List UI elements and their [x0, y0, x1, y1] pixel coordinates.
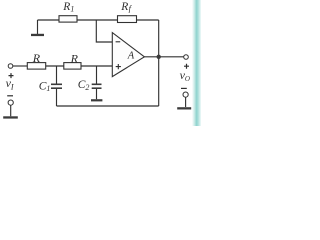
op-amp U1: [112, 33, 144, 77]
wire Rf to top-right corner: [137, 19, 159, 21]
ground below C2: [91, 99, 102, 101]
wire right vertical rail (Rf to output to bottom feedback): [158, 20, 160, 106]
wire R1 to Rf: [77, 19, 118, 21]
resistor R (input, second): [64, 51, 81, 69]
resistor Rf: [118, 1, 137, 23]
wire input terminal ground stub: [10, 105, 12, 116]
capacitor C2: [78, 79, 102, 92]
wire op-amp output to terminal: [144, 56, 183, 58]
wire C1 top stem: [56, 66, 58, 84]
pin - (inverting input mark): [116, 41, 121, 43]
resistor R (input, first): [27, 51, 45, 69]
wire C2 bottom stem to ground: [96, 89, 98, 99]
wire C1 bottom stem: [56, 89, 58, 106]
label - polarity at output: [181, 87, 187, 89]
wire top-left ground to R1: [38, 19, 60, 21]
label + polarity at input: [9, 73, 14, 78]
ground at input port: [3, 116, 18, 118]
svg-text:A: A: [127, 51, 135, 62]
pin + (non-inverting input mark): [116, 64, 121, 69]
wire output terminal ground stub: [185, 97, 187, 107]
ground top-left: [31, 20, 44, 36]
wire bottom feedback run to right rail: [57, 105, 159, 107]
resistor R1: [59, 1, 77, 22]
ground at output port: [177, 107, 191, 109]
label + polarity at output: [184, 64, 189, 69]
svg-text:R: R: [32, 51, 41, 65]
svg-text:R: R: [70, 51, 79, 65]
wire first R to second R: [46, 65, 64, 67]
node output junction: [157, 55, 161, 59]
node output terminal (top): [184, 55, 189, 60]
node input terminal (top): [8, 64, 13, 69]
node input return terminal (bottom): [8, 100, 13, 105]
svg-text:Rf: Rf: [120, 1, 132, 13]
node output return terminal (bottom): [183, 92, 188, 97]
wire C2 top stem: [96, 66, 98, 84]
label - polarity at input: [7, 95, 13, 97]
wire inverting input from node between R1 and Rf: [96, 20, 112, 42]
capacitor C1: [39, 80, 62, 93]
wire second R to op-amp + input: [81, 65, 112, 67]
wire input terminal to first R: [13, 65, 27, 67]
